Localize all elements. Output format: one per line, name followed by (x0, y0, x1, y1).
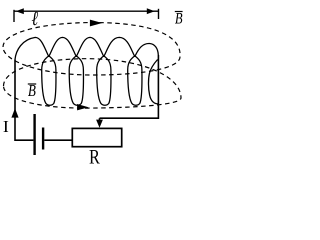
dimension line for length ell (14, 9, 159, 22)
wire left branch with current I (15, 60, 33, 141)
battery B1 short plate (42, 128, 44, 150)
dimension arrowhead right (147, 8, 155, 14)
label B-bar top-right field (175, 13, 182, 24)
label B top-right overline (175, 11, 183, 13)
arrowhead on lower field line (77, 104, 88, 110)
label ell coil length (32, 12, 38, 25)
wire battery to resistor R (44, 139, 71, 141)
inductor L1 solenoid winding (15, 37, 158, 105)
resistor R box (72, 128, 121, 146)
current arrowhead up (11, 108, 18, 117)
battery B1 long plate (33, 114, 35, 155)
arrowhead into resistor (96, 120, 103, 128)
label I current (4, 121, 9, 132)
label B middle-left overline (28, 83, 36, 85)
dimension arrowhead left (16, 8, 24, 14)
label R resistance (90, 150, 100, 164)
field line lower dashed ellipse (4, 59, 182, 108)
field line upper dashed ellipse (3, 23, 180, 76)
arrowhead on upper field line (90, 20, 102, 27)
label B-bar middle-left field (28, 85, 36, 96)
wire stub into resistor (99, 118, 101, 121)
wire right branch coil to resistor (100, 55, 159, 118)
